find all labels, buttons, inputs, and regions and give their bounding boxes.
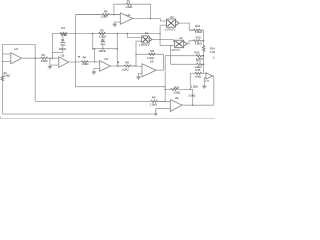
svg-text:1.0kΩ: 1.0kΩ <box>195 42 202 46</box>
svg-text:C2: C2 <box>101 38 105 42</box>
svg-text:R7: R7 <box>127 0 131 4</box>
op-amp U5 <box>142 60 156 77</box>
resistor R2 <box>41 53 48 63</box>
wire C1 box left vertical <box>51 34 53 59</box>
svg-text:1.0kΩ: 1.0kΩ <box>191 84 198 88</box>
ground U7 <box>202 86 206 88</box>
op-amp U2 <box>59 53 69 67</box>
wire A3 top input jog <box>174 40 175 42</box>
node U3 riser top <box>94 48 96 50</box>
node R8 label dot <box>118 62 119 63</box>
op-amp U1 <box>11 47 22 64</box>
svg-text:1.0kΩ: 1.0kΩ <box>4 74 11 78</box>
wire main mid horizontal <box>52 33 160 35</box>
resistor R10 <box>194 51 203 61</box>
wire U1 output <box>22 57 41 59</box>
wire R5C2 box left vertical <box>92 34 94 49</box>
wire R5C2 box bottom <box>93 48 118 50</box>
wire U4 output <box>133 18 161 20</box>
wire R4 to U3 <box>88 61 99 63</box>
svg-text:R13: R13 <box>196 36 201 40</box>
resistor R16 U6 feedback <box>171 84 198 97</box>
svg-text:R8: R8 <box>125 61 129 65</box>
resistor R9 <box>150 95 165 106</box>
wire U3 input riser <box>94 49 96 62</box>
svg-text:R9: R9 <box>151 49 155 53</box>
svg-text:U6: U6 <box>175 96 179 100</box>
wire U6 feedback riser <box>164 56 166 102</box>
op-amp U4 <box>120 13 132 24</box>
wire R10 row <box>165 55 196 57</box>
svg-text:U7: U7 <box>205 79 209 83</box>
node R10 end <box>203 55 205 57</box>
resistor R17 U5 feedback <box>147 49 155 60</box>
wire R11 riser <box>170 46 172 65</box>
window border bottom edge <box>0 116 215 118</box>
wire U2 bottom input stub <box>50 64 59 66</box>
node U6 feedback T <box>164 89 166 91</box>
wire U6 output <box>182 104 214 106</box>
multiplier A1 <box>139 31 152 47</box>
resistor R14 in collector <box>202 46 217 60</box>
resistor R6 <box>76 10 121 19</box>
wire U6 feedback top <box>165 89 193 105</box>
wire riser U2out to U4 input <box>75 15 77 62</box>
svg-text:A2: A2 <box>170 15 174 19</box>
wire R15 drop to U6 feedback <box>189 73 191 89</box>
svg-text:A3: A3 <box>179 36 183 40</box>
multiplier A3 <box>170 36 187 52</box>
wire U3 bottom input stub <box>94 69 100 72</box>
resistor R12 <box>189 24 203 34</box>
wire R7 feedback loop <box>114 4 151 18</box>
node R8 right junction <box>135 65 137 67</box>
wire C1 bottom link <box>52 52 62 54</box>
svg-text:1.0: 1.0 <box>213 55 215 59</box>
wire A2 bottom input vertical <box>159 25 161 45</box>
op-amp U3 <box>100 57 111 71</box>
node C1 box bottom <box>52 57 54 59</box>
svg-text:1.0kΩ: 1.0kΩ <box>122 68 129 72</box>
svg-text:1 V/V 0 V: 1 V/V 0 V <box>165 27 176 31</box>
ground arrow <box>154 109 157 117</box>
node mid rail right T <box>164 86 166 88</box>
resistor R15 <box>194 68 202 78</box>
svg-text:1.0kΩ: 1.0kΩ <box>150 102 157 106</box>
svg-text:1.0kΩ: 1.0kΩ <box>60 33 67 37</box>
node A1 out at vertical <box>159 39 161 41</box>
node U6 input junction <box>164 101 166 103</box>
svg-text:R2: R2 <box>42 53 46 57</box>
wire U3 output riser <box>116 34 118 67</box>
multiplier A2 <box>165 15 179 32</box>
ground U4 <box>113 24 117 26</box>
node riser mid <box>117 48 119 50</box>
svg-text:R5: R5 <box>100 28 104 32</box>
wire A3 bottom input <box>160 45 175 47</box>
wire inner feedback vertical <box>34 58 36 101</box>
ground U2 <box>48 67 52 69</box>
resistor R11 <box>194 58 203 69</box>
svg-text:R12: R12 <box>195 24 200 28</box>
wire A3 output jog <box>187 41 193 44</box>
wire U4 out to A2 top input <box>160 19 166 22</box>
svg-text:1.0kΩ: 1.0kΩ <box>195 30 202 34</box>
node R4 right junction <box>94 61 96 63</box>
wire U1 bottom input stub <box>2 60 10 62</box>
node A1 top input tap <box>127 33 129 35</box>
node riser top <box>117 33 119 35</box>
wire bottom ground rail <box>2 113 155 115</box>
svg-text:U5: U5 <box>150 60 154 64</box>
wire U5 output <box>156 69 164 71</box>
svg-text:U1: U1 <box>14 47 18 51</box>
wire A2 output <box>179 23 189 30</box>
node box bottom left <box>92 48 94 50</box>
wire R2 to U2 <box>48 57 59 59</box>
svg-text:U3: U3 <box>104 57 108 61</box>
svg-text:U4: U4 <box>127 13 131 17</box>
svg-text:1.0kΩ: 1.0kΩ <box>101 15 108 19</box>
wire A1 top input <box>127 34 142 38</box>
svg-text:R16: R16 <box>174 85 179 89</box>
op-amp U6 <box>170 96 182 111</box>
op-amp U7 <box>206 73 213 79</box>
capacitor C1 <box>59 36 67 53</box>
wire U5 feedback top <box>136 53 164 55</box>
svg-text:1.0kΩ: 1.0kΩ <box>194 74 201 78</box>
resistor R3 <box>60 26 67 37</box>
svg-text:R3: R3 <box>61 26 65 30</box>
wire A2 bottom input stub <box>160 24 166 26</box>
node U5 feedback left <box>135 54 137 56</box>
svg-text:U2: U2 <box>61 53 65 57</box>
resistor R5 <box>99 28 106 38</box>
resistor R7 <box>125 0 132 9</box>
node A3 bottom input tap <box>170 45 172 47</box>
svg-text:R10: R10 <box>194 51 199 55</box>
wire right collector vertical <box>203 30 205 73</box>
svg-text:1.0kΩ: 1.0kΩ <box>125 5 132 9</box>
svg-text:1 V/V 0 V: 1 V/V 0 V <box>139 43 150 47</box>
wire ground drop U2 <box>49 58 51 66</box>
ground U5 <box>136 77 140 79</box>
node C2 bottom <box>102 48 104 50</box>
wire U3 output <box>110 65 117 67</box>
svg-text:1.0kΩ: 1.0kΩ <box>188 94 195 98</box>
wire U6 bottom input <box>156 108 171 110</box>
wire A1 bottom input <box>136 41 142 66</box>
wire U7 bottom input stub <box>204 78 206 86</box>
node R4 label dot <box>78 56 79 57</box>
wire U4 bottom input stub <box>115 22 121 24</box>
node U6 output junction <box>192 104 194 106</box>
svg-text:1 V/V 0 V: 1 V/V 0 V <box>170 48 181 52</box>
svg-text:R15: R15 <box>196 68 201 72</box>
svg-text:R11: R11 <box>196 58 201 62</box>
node U4 out feedback junction <box>150 18 152 20</box>
node U4 input junction <box>113 14 115 16</box>
resistor R8 <box>117 61 136 72</box>
wire U1 feedback loop <box>2 45 35 59</box>
capacitor C2 <box>98 35 106 53</box>
node R15 drop bottom <box>190 89 192 91</box>
node U2 output junction <box>75 61 77 63</box>
svg-text:R9: R9 <box>152 95 156 99</box>
svg-text:1.0kΩ: 1.0kΩ <box>210 50 215 54</box>
svg-text:1.0kΩ: 1.0kΩ <box>81 62 88 66</box>
svg-text:1.0kΩ: 1.0kΩ <box>147 56 154 60</box>
resistor R4 <box>81 55 88 66</box>
node box top left <box>92 33 94 35</box>
svg-text:R4: R4 <box>83 55 87 59</box>
wire U6 input <box>165 100 170 102</box>
node U2 input ground tap <box>49 57 51 59</box>
wire R11 row <box>171 63 197 65</box>
node U1 input junction <box>2 61 4 63</box>
svg-text:100nF: 100nF <box>98 49 106 53</box>
wire U2 output <box>69 61 82 63</box>
wire U1 top input stub <box>2 53 10 55</box>
resistor R13 <box>193 36 203 46</box>
wire R8 to U5 <box>136 65 142 68</box>
svg-text:C1: C1 <box>61 38 65 42</box>
wire U5 feedback riser <box>163 54 165 70</box>
resistor R1 <box>1 71 10 81</box>
wire A1 output <box>152 39 173 41</box>
wire left vertical <box>1 54 3 76</box>
wire inner bottom rail <box>35 100 151 102</box>
node main wire right end <box>159 33 161 35</box>
svg-text:100nF: 100nF <box>59 47 67 51</box>
wire U7 output drop <box>213 76 214 105</box>
ground U3 <box>92 72 96 74</box>
wire R15 row <box>190 72 206 74</box>
node R13 end <box>203 40 205 42</box>
svg-text:R6: R6 <box>104 10 108 14</box>
node U3 output junction <box>117 65 119 67</box>
node R11 end <box>203 64 205 66</box>
svg-text:1.0kΩ: 1.0kΩ <box>173 91 180 95</box>
svg-text:1.0kΩ: 1.0kΩ <box>41 59 48 63</box>
wire left vertical lower <box>1 81 3 114</box>
wire U5 bottom input stub <box>139 73 143 77</box>
svg-text:A1: A1 <box>145 31 149 35</box>
node U1 output junction <box>34 57 36 59</box>
wire U2out riser lower to mid rail <box>76 62 166 87</box>
